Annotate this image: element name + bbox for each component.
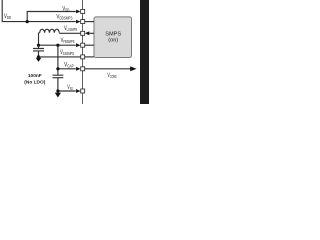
svg-text:VLXSMPS: VLXSMPS bbox=[64, 25, 77, 32]
arrowhead into P2 bbox=[76, 20, 80, 24]
svg-text:VDDSMPS: VDDSMPS bbox=[56, 14, 72, 21]
node VCAP branch junction bbox=[56, 44, 59, 47]
svg-text:VCORE: VCORE bbox=[107, 72, 116, 79]
wire VCAP bbox=[58, 68, 76, 70]
ground C1 bbox=[36, 58, 42, 62]
wire VCAP vertical bbox=[57, 45, 59, 75]
arrowhead into P1 bbox=[76, 10, 80, 14]
node VCAP junction bbox=[56, 67, 59, 70]
pin P3 VLXSMPS bbox=[81, 31, 85, 35]
svg-text:VDD: VDD bbox=[4, 13, 11, 20]
svg-text:100nF: 100nF bbox=[28, 73, 42, 79]
svg-text:VSSSMPS: VSSSMPS bbox=[60, 49, 74, 56]
wire P2 to SMPS bbox=[85, 21, 94, 23]
inductor L1 bbox=[39, 29, 60, 45]
wire VLXSMPS bbox=[59, 32, 80, 34]
svg-text:VDD: VDD bbox=[62, 5, 69, 12]
arrowhead into P6 bbox=[76, 67, 80, 71]
arrowhead out of P3 bbox=[85, 31, 89, 35]
svg-text:(on): (on) bbox=[108, 37, 118, 43]
wire VDD top branch bbox=[27, 12, 76, 22]
wire P4 to SMPS bbox=[85, 44, 94, 46]
arrowhead into P4 bbox=[76, 43, 80, 47]
capacitor C1 bbox=[33, 45, 44, 57]
pin P2 VDDSMPS bbox=[81, 20, 85, 24]
wire VDD entry bbox=[2, 0, 76, 22]
black bar bbox=[140, 0, 149, 104]
wire VSSSMPS bbox=[39, 56, 81, 58]
wire P3 to SMPS bbox=[90, 32, 95, 34]
pin P1 VDD bbox=[81, 10, 85, 14]
node VSSSMPS ground junction bbox=[37, 55, 40, 58]
svg-text:VCAP: VCAP bbox=[64, 61, 74, 68]
wire VCORE arrow bbox=[85, 68, 132, 70]
svg-text:VFBSMPS: VFBSMPS bbox=[61, 37, 75, 44]
capacitor C2 bbox=[53, 75, 64, 91]
node VSS junction bbox=[56, 89, 59, 92]
pin P7 VSS bbox=[81, 89, 85, 93]
arrowhead into P7 bbox=[76, 89, 80, 93]
chip outline left edge bbox=[82, 0, 84, 104]
wire P5 to SMPS bbox=[85, 56, 94, 58]
wire VFBSMPS bbox=[39, 44, 76, 46]
wire VSS bbox=[58, 90, 76, 92]
svg-text:(No LDO): (No LDO) bbox=[24, 79, 45, 85]
pin P5 VSSSMPS bbox=[81, 55, 85, 59]
svg-text:VSS: VSS bbox=[67, 84, 73, 91]
node L/C junction bbox=[37, 44, 40, 47]
ground C2 bbox=[55, 93, 61, 98]
pin P4 VFBSMPS bbox=[81, 43, 85, 47]
node VDD junction bbox=[26, 20, 29, 23]
op-amp U1 SMPS block bbox=[94, 17, 132, 58]
pin P6 VCAP bbox=[81, 67, 85, 71]
